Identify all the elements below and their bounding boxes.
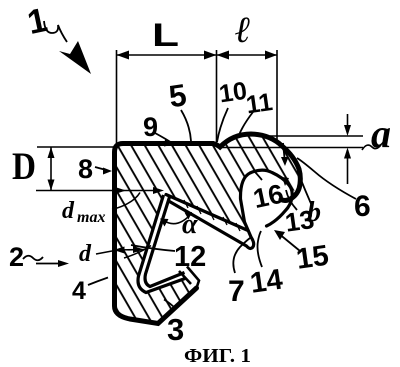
svg-text:4: 4 <box>72 277 86 305</box>
foot arm inner end cap <box>179 271 191 284</box>
svg-text:L: L <box>152 17 179 53</box>
svg-text:ℓ: ℓ <box>235 10 251 51</box>
svg-text:7: 7 <box>228 275 245 308</box>
dimension a lines and arrow shafts <box>222 114 363 184</box>
foot arm outer end cap <box>187 267 199 289</box>
lip section hatch dashes <box>184 200 240 231</box>
hatched cross-section body of seal profile <box>115 134 301 324</box>
svg-text:α: α <box>182 209 198 240</box>
arrowhead of section mark 2 <box>58 260 69 267</box>
lip upper edge <box>166 195 248 231</box>
svg-text:2: 2 <box>9 242 24 272</box>
slot 12 left edge <box>138 195 185 293</box>
svg-text:12: 12 <box>174 241 206 273</box>
leader to part 5 <box>23 21 356 309</box>
big solid arrow of label 1 <box>59 41 91 74</box>
leader to part 6 <box>297 158 356 199</box>
notch 16 outline with inner hook tip 15 <box>240 170 292 226</box>
arrowheads of dimension a <box>344 125 351 159</box>
arrowhead of leader 13 <box>282 177 289 186</box>
white cavity of hook notch 16 <box>240 170 292 222</box>
arrowheads of dimension d <box>114 246 145 254</box>
svg-text:ФИГ. 1: ФИГ. 1 <box>184 345 251 367</box>
leader to part 4 <box>88 278 108 286</box>
beak wall, rounded tip 14 and lip lower edge 7 <box>170 202 254 249</box>
dimension line L and l <box>117 50 278 147</box>
svg-text:b: b <box>307 197 321 228</box>
leader to part 15 <box>278 233 300 251</box>
svg-text:14: 14 <box>248 264 284 300</box>
svg-text:3: 3 <box>167 312 184 347</box>
arrowheads of dimension D and d_max <box>48 147 165 194</box>
svg-text:16: 16 <box>251 179 287 215</box>
arrowhead at hook throat <box>281 157 289 166</box>
body outline: top edge 9, left wall 8/4, bottom foot 3 <box>115 144 214 324</box>
svg-text:15: 15 <box>294 240 330 276</box>
squiggle under label a <box>362 145 381 150</box>
leader to part 14 <box>258 231 263 267</box>
arrow shaft of section mark 2 <box>36 263 60 265</box>
svg-text:a: a <box>371 111 391 156</box>
dimension D extension lines and arrow line <box>36 147 160 191</box>
leader from d_max label <box>112 193 140 210</box>
leader to part 13 <box>286 190 297 210</box>
arrowheads of dimensions L and l <box>117 51 278 60</box>
leader to part 7 <box>233 238 250 273</box>
small arrow shaft at hook throat <box>283 143 285 158</box>
svg-text:max: max <box>77 209 105 226</box>
leader to part 3 <box>164 300 176 310</box>
leader from label b <box>299 175 312 206</box>
svg-text:d: d <box>79 241 92 267</box>
arrowhead of leader 9 <box>164 140 174 147</box>
tick of label 16 <box>254 171 262 180</box>
alpha arc right arrowhead <box>185 212 193 220</box>
arrowhead of leader 8 <box>58 41 289 267</box>
arc leader below d arrow <box>124 246 151 259</box>
white void between lip 5 and foot arm 3 <box>150 196 256 293</box>
svg-text:D: D <box>12 145 36 188</box>
leader to part 8 <box>95 167 106 170</box>
leader to part 10 <box>217 108 228 142</box>
svg-text:6: 6 <box>354 190 371 223</box>
white groove of slot 12 <box>138 195 185 293</box>
svg-text:9: 9 <box>143 112 158 142</box>
svg-text:11: 11 <box>244 88 274 119</box>
svg-text:d: d <box>62 198 75 224</box>
angle alpha arc <box>163 213 192 224</box>
leader to slot 12 <box>131 245 175 251</box>
slot 12 right edge <box>145 197 184 287</box>
alpha arc left arrowhead <box>160 219 169 227</box>
arrowhead of leader 15 <box>274 230 285 240</box>
wavy tail of label 1 <box>44 21 67 42</box>
squiggle after label 2 <box>23 256 43 261</box>
leader to part 11 <box>239 112 253 135</box>
dimension d arrow line <box>114 249 145 252</box>
leader to part 9 <box>155 133 172 143</box>
leader from d label <box>96 251 112 254</box>
svg-text:8: 8 <box>78 154 93 184</box>
dome bump 10/11 and outer hook curl 6 <box>213 134 300 200</box>
